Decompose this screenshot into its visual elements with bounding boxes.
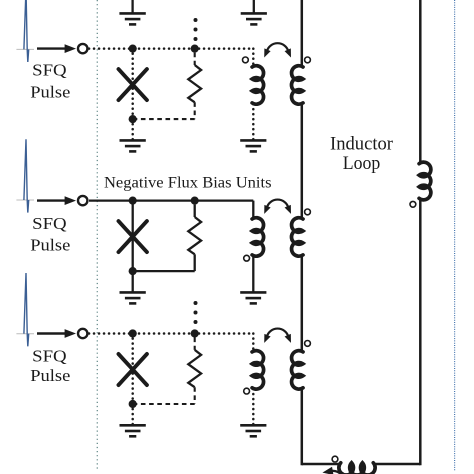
- ground below primary 2: [240, 292, 266, 303]
- wire: node to resistor top 2: [194, 205, 196, 217]
- wire: resistor bottom lead 2: [194, 254, 196, 271]
- resistor R2: [188, 217, 201, 254]
- Josephson junction B1: [119, 69, 147, 100]
- coupling arrow at bottom inductor (clipped): [322, 467, 343, 474]
- label: SFQ Pulse (row 1): [30, 61, 70, 102]
- SFQ pulse waveform (3): [16, 273, 34, 346]
- node: JJ bottom 3: [129, 400, 137, 408]
- dotted boundary line (right, blue): [454, 0, 456, 471]
- ground below JJ 2: [120, 292, 146, 303]
- wire: JJ bottom node to ground 3: [131, 404, 134, 425]
- node: JJ bottom 2: [129, 267, 137, 275]
- coupling arrow M2: [261, 200, 294, 216]
- wire: primary coil 3 to ground: [252, 389, 255, 425]
- SFQ pulse waveform (2): [16, 139, 34, 212]
- ground below JJ 1: [120, 140, 146, 151]
- input terminal 2: [78, 196, 87, 205]
- svg-text:Loop: Loop: [343, 153, 381, 174]
- wire: terminal 3 to transformer corner: [89, 332, 253, 335]
- continuation dots above resistor R1: [194, 18, 198, 22]
- node: wire/resistor 3: [191, 329, 199, 337]
- wire: terminal 2 to transformer corner: [89, 199, 253, 201]
- wire: resistor bottom lead 3: [194, 387, 196, 404]
- dotted boundary line (left, gray): [96, 0, 98, 470]
- ground (top, above JJ column): [119, 13, 145, 24]
- node: wire/JJ 3: [129, 329, 137, 337]
- wire: node to resistor top 3: [194, 338, 196, 350]
- wire: node to JJ 3: [131, 334, 134, 405]
- resistor R3: [188, 350, 201, 387]
- svg-text:SFQ: SFQ: [32, 214, 67, 233]
- wire: JJ bottom node to ground 1: [131, 119, 134, 140]
- wire: JJ bottom node to ground 2: [132, 271, 134, 292]
- wire: primary coil 1 to ground: [252, 104, 255, 140]
- ground below primary 1: [240, 140, 266, 151]
- Josephson junction B3: [119, 354, 147, 385]
- node: wire/JJ 1: [129, 45, 137, 53]
- wire: JJ node to resistor bottom 1: [133, 118, 195, 120]
- wire: loop left line segments: [301, 0, 304, 465]
- inductor: transformer secondary 2 (on loop line): [291, 218, 303, 257]
- SFQ pulse waveform (1): [16, 0, 34, 62]
- inductor: loop bottom (clipped): [339, 463, 375, 474]
- svg-text:Pulse: Pulse: [30, 83, 70, 102]
- wire: JJ node to resistor bottom 2: [133, 270, 195, 272]
- inductor: transformer primary 3: [252, 351, 264, 389]
- polarity dot: secondary 3 (top): [305, 341, 311, 347]
- svg-text:Pulse: Pulse: [30, 366, 70, 385]
- wire: node to JJ 2: [132, 201, 134, 272]
- wire: loop right line segments: [419, 0, 422, 465]
- svg-text:SFQ: SFQ: [32, 61, 67, 80]
- node: wire/JJ 2: [129, 197, 137, 205]
- polarity dot: primary 2 (bottom): [244, 255, 250, 261]
- polarity dot: secondary 2 (top): [305, 209, 311, 215]
- ground (top, above transformer column): [241, 13, 267, 24]
- inductor: loop right (readout): [419, 162, 431, 200]
- wire: loop bottom: [302, 463, 421, 466]
- Josephson junction B2: [119, 221, 147, 252]
- wire: JJ node to resistor bottom 3: [133, 403, 195, 405]
- wire: primary coil 2 to ground: [252, 256, 254, 292]
- coupling arrow M1: [261, 43, 294, 59]
- wire: corner down to primary coil 2: [252, 201, 254, 218]
- ground below primary 3: [240, 425, 266, 436]
- input arrow 3: [37, 329, 76, 338]
- label: Inductor Loop: [330, 133, 394, 174]
- label: SFQ Pulse (row 3): [30, 346, 70, 385]
- input arrow 2: [37, 196, 76, 205]
- continuation dots above resistor R3: [194, 301, 198, 305]
- node: wire/resistor 2: [191, 197, 199, 205]
- wire: node to resistor top 1: [194, 53, 196, 65]
- inductor: transformer primary 1: [252, 66, 264, 105]
- label: SFQ Pulse (row 2): [30, 214, 70, 254]
- wire: resistor bottom lead 1: [194, 102, 196, 119]
- inductor: transformer secondary 1 (on loop line): [291, 66, 303, 105]
- wire: corner down to primary coil 3: [252, 334, 255, 351]
- wire: node to JJ 1: [131, 49, 134, 120]
- inductor: transformer primary 2: [252, 218, 264, 257]
- node: JJ bottom 1: [129, 115, 137, 123]
- clipped stem of unit-0 junction ground: [131, 0, 133, 13]
- polarity dot: secondary 1 (top): [305, 57, 311, 63]
- polarity dot: primary 3 (bottom): [244, 388, 250, 394]
- polarity dot: primary 1 (top): [243, 57, 249, 63]
- polarity dot: right inductor (bottom-left): [410, 201, 416, 207]
- wire: corner down to primary coil 1: [252, 49, 255, 66]
- svg-text:Pulse: Pulse: [30, 235, 70, 254]
- input arrow 1: [37, 44, 76, 53]
- polarity dot: bottom inductor (top-left): [332, 456, 338, 462]
- node: wire/resistor 1: [191, 45, 199, 53]
- resistor R1: [188, 65, 201, 102]
- clipped stem of unit-0 transformer ground: [253, 0, 255, 13]
- svg-text:Inductor: Inductor: [330, 133, 394, 154]
- svg-text:Negative Flux Bias Units: Negative Flux Bias Units: [104, 174, 272, 191]
- ground below JJ 3: [120, 425, 146, 436]
- inductor: transformer secondary 3 (on loop line): [291, 351, 303, 389]
- input terminal 3: [78, 329, 87, 338]
- coupling arrow M3: [261, 329, 294, 345]
- svg-text:SFQ: SFQ: [32, 346, 67, 365]
- input terminal 1: [78, 44, 87, 53]
- wire: terminal 1 to transformer corner: [89, 47, 253, 50]
